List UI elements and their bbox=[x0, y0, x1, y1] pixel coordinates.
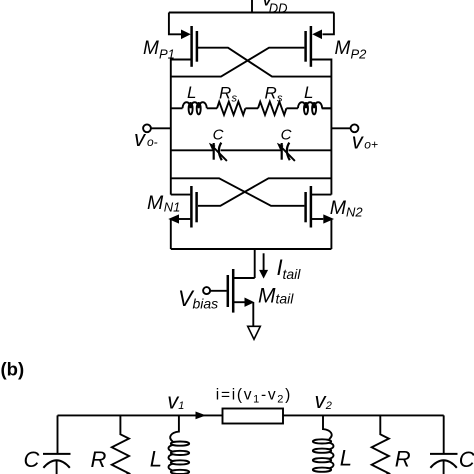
svg-text:M: M bbox=[330, 197, 347, 219]
svg-text:R: R bbox=[395, 446, 411, 471]
svg-text:C: C bbox=[213, 127, 224, 144]
svg-text:C: C bbox=[24, 447, 40, 472]
svg-text:M: M bbox=[258, 285, 276, 308]
svg-text:N1: N1 bbox=[164, 199, 181, 214]
svg-text:tail: tail bbox=[283, 266, 302, 282]
svg-text:o-: o- bbox=[147, 135, 158, 149]
svg-text:P2: P2 bbox=[351, 47, 368, 62]
svg-text:C: C bbox=[459, 447, 474, 472]
svg-text:s: s bbox=[277, 93, 283, 105]
svg-text:o+: o+ bbox=[364, 138, 378, 152]
svg-text:C: C bbox=[281, 127, 292, 144]
svg-text:i=i(v1-v2): i=i(v1-v2) bbox=[216, 386, 292, 405]
svg-text:2: 2 bbox=[325, 400, 332, 412]
svg-text:M: M bbox=[335, 38, 351, 59]
svg-text:R: R bbox=[265, 84, 277, 103]
svg-text:(b): (b) bbox=[1, 358, 25, 379]
svg-text:M: M bbox=[143, 38, 159, 59]
svg-text:1: 1 bbox=[178, 400, 184, 412]
svg-text:tail: tail bbox=[276, 290, 295, 306]
svg-text:s: s bbox=[232, 93, 238, 105]
svg-text:v: v bbox=[352, 128, 365, 153]
svg-text:N2: N2 bbox=[346, 205, 363, 220]
svg-text:L: L bbox=[187, 83, 196, 102]
svg-text:L: L bbox=[340, 446, 352, 471]
svg-text:L: L bbox=[304, 83, 313, 102]
svg-text:bias: bias bbox=[193, 296, 219, 312]
svg-text:v: v bbox=[134, 126, 147, 151]
svg-text:R: R bbox=[91, 447, 107, 472]
svg-text:R: R bbox=[219, 84, 231, 103]
svg-text:M: M bbox=[147, 192, 164, 214]
svg-text:P1: P1 bbox=[159, 47, 175, 62]
svg-text:DD: DD bbox=[269, 1, 288, 16]
svg-text:L: L bbox=[150, 447, 162, 472]
